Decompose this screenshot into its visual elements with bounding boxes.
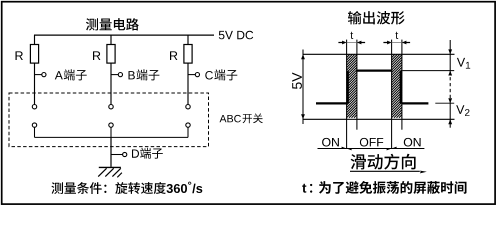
- waveform trace: rising edge (under mask bar 1): [347, 71, 349, 104]
- switch C upper contact circle: [186, 105, 190, 109]
- terminal A circle: [42, 73, 46, 77]
- label: OFF: [360, 138, 383, 147]
- caption: 测量条件：旋转速度360°/s (measurement condition): [51, 182, 202, 194]
- wire: bus to resistor RC: [187, 35, 189, 44]
- sliding direction arrow line: [350, 171, 427, 174]
- waveform trace: low level (left): [316, 102, 347, 104]
- reference line: low level extended to V2 dimension: [435, 102, 454, 104]
- label: D端子 (terminal D): [132, 148, 163, 159]
- label: ABC开关 (ABC switch): [220, 113, 263, 123]
- caption: t：为了避免振荡的屏蔽时间 (t = mask time to avoid oscillation): [302, 181, 466, 194]
- switch B lower contact circle: [109, 123, 113, 127]
- label: t (mask time 2): [395, 32, 398, 39]
- label: ON (right): [404, 138, 421, 147]
- waveform trace: falling edge (under mask bar 2): [400, 71, 402, 104]
- ON/OFF zone underline dimension lines with arrows: [318, 147, 425, 151]
- waveform 5V top reference line: [303, 53, 455, 55]
- mask time hatched bar 2: [392, 54, 402, 117]
- dimension t1: arrows: [338, 41, 365, 45]
- dimension t2: extension line right: [401, 40, 403, 130]
- wire: bus to resistor RB: [110, 35, 112, 44]
- wire: stub to terminal B: [111, 74, 118, 76]
- dimension t2: arrows: [383, 41, 410, 45]
- wire: bus to resistor RA: [34, 35, 36, 44]
- waveform trace: high level: [356, 69, 392, 71]
- dimension t1: extension line left: [346, 40, 348, 149]
- wire: switch A lower contact to common rail: [34, 127, 36, 137]
- terminal B circle: [118, 73, 122, 77]
- label: ON (left): [322, 138, 339, 147]
- wire: switch B lower contact to common rail: [110, 127, 112, 137]
- label: t (mask time 1): [350, 32, 353, 39]
- dimension 5V: vertical line with arrows: [301, 50, 305, 125]
- label R (resistor B): [93, 51, 100, 60]
- label R (resistor A): [16, 51, 23, 60]
- terminal D circle: [123, 152, 127, 156]
- dimension t2: extension line left: [391, 40, 393, 149]
- resistor R (B column): [107, 45, 115, 64]
- ABC switch dashed enclosure: [9, 93, 209, 147]
- wire: common rail to ground: [110, 137, 112, 167]
- wire: stub to terminal A: [35, 74, 42, 76]
- title: 测量电路 (measurement circuit): [86, 18, 139, 30]
- dimension V2 arrows: [448, 98, 452, 124]
- label: A端子 (terminal A): [55, 69, 87, 80]
- wire: resistor RC to switch contact: [187, 63, 189, 104]
- resistor R (A column): [30, 45, 38, 64]
- label R (resistor C): [170, 51, 177, 60]
- switch A upper contact circle: [32, 105, 36, 109]
- wire: stub to terminal C: [188, 74, 195, 76]
- mask time hatched bar 1: [347, 54, 357, 117]
- switch C lower contact circle: [186, 123, 190, 127]
- reference line: high level extended to V1 dimension: [403, 70, 455, 72]
- label: V2: [456, 105, 469, 116]
- title: 输出波形 (output waveform): [348, 11, 405, 25]
- wire: common rail joining switch contacts: [35, 136, 189, 138]
- label: 5V (rotated): [292, 72, 302, 89]
- dimension V1: vertical line with outside arrows: [448, 40, 452, 128]
- ground symbol: [98, 167, 122, 177]
- wire: resistor RB to switch contact: [110, 63, 112, 104]
- waveform 0V bottom reference line: [303, 118, 455, 120]
- resistor R (C column): [184, 45, 192, 64]
- switch B upper contact circle: [109, 105, 113, 109]
- waveform trace: low level (right): [401, 102, 428, 104]
- wire: +5V supply bus: [34, 34, 214, 36]
- label: C端子 (terminal C): [205, 69, 237, 80]
- label: B端子 (terminal B): [129, 69, 160, 80]
- wire: resistor RA to switch contact: [34, 63, 36, 104]
- switch A lower contact circle: [32, 123, 36, 127]
- wire: switch C lower contact to common rail: [187, 127, 189, 137]
- label: V1: [457, 58, 470, 69]
- label: 滑动方向 (sliding direction): [351, 154, 416, 170]
- wire: stub to terminal D: [111, 154, 123, 156]
- dimension t1: extension line right: [356, 40, 358, 130]
- terminal C circle: [195, 73, 199, 77]
- label: 5V DC supply: [219, 31, 253, 40]
